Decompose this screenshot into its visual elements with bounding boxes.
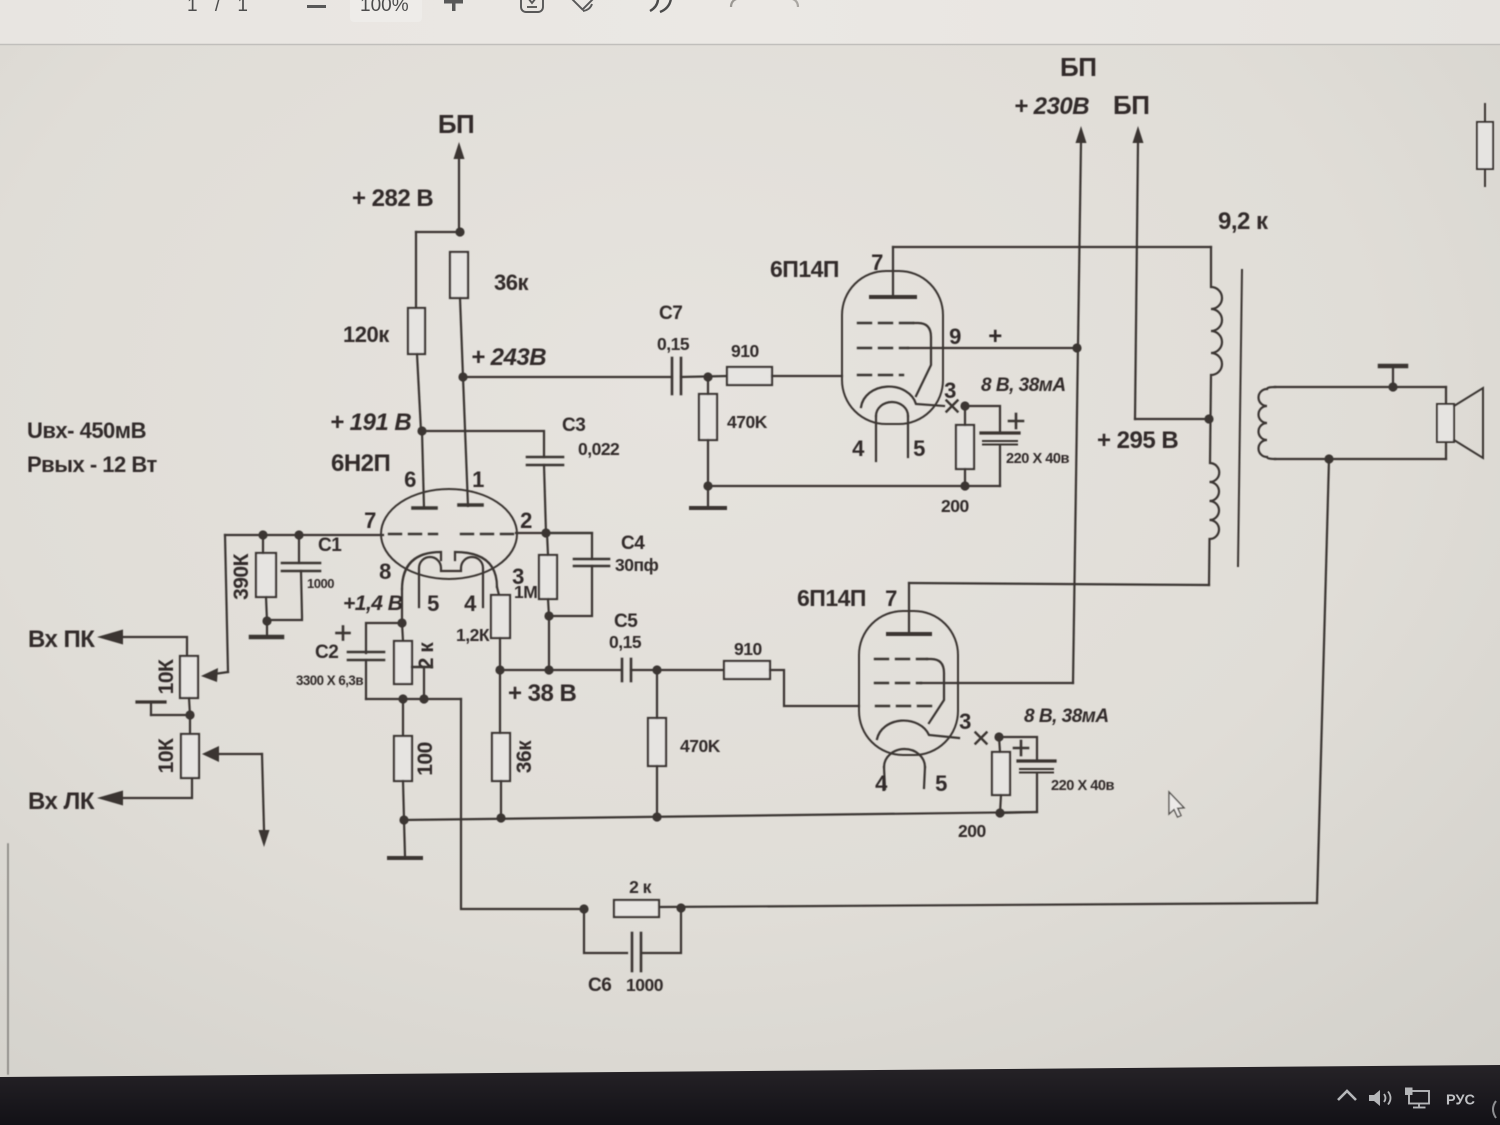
resistor 36к (triode2) <box>492 733 510 781</box>
pin 3 lead V1 <box>497 587 499 595</box>
feedback wire bottom <box>659 903 1317 907</box>
svg-text:C3: C3 <box>562 415 585 436</box>
svg-text:220 Х 40в: 220 Х 40в <box>1051 777 1114 794</box>
capacitor 220х40 (V3) plus <box>1014 747 1028 750</box>
toolbar rotate icon <box>570 0 594 11</box>
wire 36к to bus <box>500 781 502 818</box>
transformer secondary winding <box>1259 387 1276 459</box>
wire C5 node to 910 <box>657 669 724 671</box>
wire 100 to bus <box>403 781 404 819</box>
wire cathode to 2к <box>402 623 403 641</box>
svg-text:БП: БП <box>438 109 474 139</box>
power arrow БП stage1 <box>458 158 460 232</box>
ground T on secondary <box>1388 382 1397 391</box>
wire 2к to 100 <box>402 699 404 736</box>
toolbar redo icon <box>780 0 798 7</box>
wire БП to transformer tap <box>1135 418 1209 420</box>
cathode triode1 V1 <box>402 552 441 589</box>
input Вх ЛК arrow <box>97 791 123 806</box>
capacitor C3 <box>527 456 563 459</box>
svg-text:200: 200 <box>941 496 969 516</box>
resistor 2 к cathode <box>394 641 412 684</box>
svg-text:390К: 390К <box>230 553 253 600</box>
wire C2 to cathode node <box>366 623 402 653</box>
tube V3 envelope <box>859 611 958 755</box>
svg-text:0,022: 0,022 <box>578 439 620 459</box>
wire C5 to 470K node <box>631 669 657 671</box>
resistor 470K (upper) <box>699 394 717 440</box>
wire C2 bottom <box>365 660 367 699</box>
svg-text:4: 4 <box>852 436 865 461</box>
svg-text:+ 295 В: + 295 В <box>1097 427 1178 454</box>
resistor 36к <box>450 252 468 298</box>
svg-text:36к: 36к <box>513 740 536 773</box>
speaker horn <box>1454 388 1483 458</box>
node cathode V3 <box>994 732 1003 741</box>
heater arc V2 <box>876 402 908 416</box>
toolbar zoom level 100% <box>350 0 422 22</box>
node 1M bottom <box>544 611 553 620</box>
ground symbol 390K <box>266 621 268 634</box>
wire anode pin1 V1 <box>463 377 468 506</box>
wire Вх ЛК to pot R2 <box>122 779 192 798</box>
svg-text:+ 191 В: + 191 В <box>330 409 411 436</box>
svg-text:Рвых - 12 Вт: Рвых - 12 Вт <box>27 452 157 477</box>
secondary top wire <box>1275 386 1446 388</box>
capacitor C5 <box>621 659 624 681</box>
wire cap to bottom (V2) <box>999 445 1001 486</box>
taskbar network icon <box>1405 1088 1413 1096</box>
anode plate V2 <box>871 295 915 299</box>
svg-text:3: 3 <box>944 378 956 403</box>
node C1 top <box>294 530 303 539</box>
svg-text:C7: C7 <box>659 303 682 324</box>
grid3 row V3 <box>876 705 938 707</box>
svg-text:120к: 120к <box>343 322 390 347</box>
svg-text:1 / 1: 1 / 1 <box>187 0 254 16</box>
svg-text:БП: БП <box>1060 52 1096 82</box>
speaker coil box <box>1437 404 1454 442</box>
grid1 row V2 <box>858 322 914 324</box>
svg-text:5: 5 <box>935 771 947 796</box>
svg-text:РУС: РУС <box>1446 1093 1476 1109</box>
wire anode V2 to primary <box>893 246 1211 248</box>
node 470K top (upper) <box>703 372 712 381</box>
node 470K bottom (upper) <box>703 481 712 490</box>
svg-text:1000: 1000 <box>307 576 334 591</box>
input Вх ПК arrow <box>97 630 123 645</box>
ground stub at pots junction <box>151 714 190 716</box>
anode plate triode2 <box>459 503 482 507</box>
ground symbol 470K <box>707 486 709 506</box>
svg-text:8 В, 38мА: 8 В, 38мА <box>981 375 1066 396</box>
wire +191В to C3 <box>422 431 544 457</box>
wire 910 to V3 grid <box>770 670 859 706</box>
wire screens V3 <box>958 682 1073 684</box>
speaker wire right <box>1445 387 1447 404</box>
grid wire V1 left <box>225 534 383 536</box>
svg-text:2: 2 <box>520 508 532 533</box>
wire C7 to 910 <box>681 376 727 377</box>
resistor 100 <box>394 736 412 781</box>
svg-text:+ 243В: + 243В <box>471 344 546 371</box>
cathode triode2 V1 <box>455 552 497 587</box>
svg-text:Вх ЛК: Вх ЛК <box>28 788 95 815</box>
svg-text:4: 4 <box>464 591 477 616</box>
feedback wire to cathode <box>461 699 584 909</box>
svg-text:36к: 36к <box>494 270 529 295</box>
node C5/470K <box>652 665 661 674</box>
transformer core <box>1238 270 1242 566</box>
svg-text:8 В, 38мА: 8 В, 38мА <box>1024 706 1109 727</box>
svg-text:200: 200 <box>958 821 986 841</box>
svg-text:3: 3 <box>959 709 971 734</box>
svg-text:2 к: 2 к <box>629 877 652 897</box>
wire pot R2 wiper down arrow <box>262 754 264 829</box>
svg-text:0,15: 0,15 <box>657 334 690 354</box>
svg-text:8: 8 <box>379 559 391 584</box>
grid3 row V2 <box>858 374 903 376</box>
feedback wire right <box>1317 459 1329 903</box>
wire 120к to +191В node <box>417 354 421 431</box>
page left edge line <box>7 844 9 1074</box>
svg-text:30пф: 30пф <box>615 555 659 575</box>
pin 7 lead V2 <box>892 247 894 297</box>
node 1M bottom tap <box>544 665 553 674</box>
secondary bottom wire <box>1275 458 1446 460</box>
resistor 910 (lower) <box>724 661 770 679</box>
wire cathode V2 to cap <box>965 406 1000 433</box>
svg-text:БП: БП <box>1113 90 1149 120</box>
potentiometer R1 10К <box>180 656 198 698</box>
capacitor 220х40 (V2) plus <box>1009 420 1023 423</box>
resistor right edge <box>1477 122 1493 169</box>
capacitor C6 loop <box>584 909 681 953</box>
svg-text:10К: 10К <box>155 659 178 694</box>
svg-text:6: 6 <box>404 467 416 492</box>
x mark cathode V3 <box>976 733 987 744</box>
wire cathode bottom rail <box>366 698 461 700</box>
svg-text:9,2 к: 9,2 к <box>1218 208 1269 235</box>
wire cathode bottom rail V2 <box>708 485 1000 487</box>
wire C4 to 1M bottom <box>549 566 592 670</box>
node feedback right <box>676 903 685 912</box>
svg-text:+: + <box>988 323 1002 350</box>
svg-text:5: 5 <box>913 436 925 461</box>
node +191В <box>417 426 426 435</box>
resistor 120к <box>408 308 425 354</box>
pin 6 lead V1 <box>422 431 424 508</box>
grid2 row V3 <box>875 682 921 684</box>
svg-text:6П14П: 6П14П <box>797 585 866 611</box>
node transformer tap <box>1204 414 1213 423</box>
wire +38 to C5 <box>500 669 621 671</box>
svg-text:+ 38 В: + 38 В <box>508 680 577 707</box>
cathode arc V2 <box>861 387 944 407</box>
svg-text:10К: 10К <box>155 738 178 773</box>
ground bus wire <box>404 812 1036 820</box>
wire C1 bottom <box>267 571 302 620</box>
svg-text:+ 282 В: + 282 В <box>352 185 433 212</box>
svg-text:C1: C1 <box>318 535 342 556</box>
power arrow +230В <box>1076 126 1087 143</box>
svg-text:7: 7 <box>364 508 376 533</box>
svg-text:C2: C2 <box>315 642 338 663</box>
wire 36к to +243В node <box>460 298 463 377</box>
node cathode V1a <box>397 618 406 627</box>
node 390K top <box>258 530 267 539</box>
transformer primary winding <box>1209 247 1222 585</box>
svg-text:100: 100 <box>414 742 437 776</box>
svg-text:Вх ПК: Вх ПК <box>28 626 95 653</box>
svg-text:C6: C6 <box>588 975 611 996</box>
wire cap to bus (V3) <box>1036 773 1038 812</box>
svg-text:4: 4 <box>875 771 888 796</box>
resistor 200 (V2) <box>956 425 974 469</box>
taskbar speaker icon <box>1369 1090 1380 1106</box>
grid2 row V2 <box>858 347 908 349</box>
svg-text:910: 910 <box>734 639 762 659</box>
taskbar chevron up <box>1338 1091 1356 1100</box>
tube V2 envelope <box>842 271 943 424</box>
anode plate triode1 <box>413 506 436 510</box>
node +243В <box>458 372 467 381</box>
svg-text:1М: 1М <box>514 582 537 602</box>
svg-text:470K: 470K <box>680 736 721 756</box>
grid dashes V1 <box>389 533 437 535</box>
svg-text:6П14П: 6П14П <box>770 256 839 282</box>
node feedback left <box>579 904 588 913</box>
mouse cursor <box>1169 792 1184 817</box>
toolbar zoom minus <box>307 5 326 8</box>
taskbar partial icon corner <box>1493 1101 1496 1118</box>
node +282В junction <box>455 227 464 236</box>
svg-text:9: 9 <box>949 324 961 349</box>
svg-text:2 к: 2 к <box>415 642 438 670</box>
wire +38 to 36к <box>499 670 501 733</box>
ground symbol bus <box>404 820 405 856</box>
wire 1,2К to +38 node <box>499 638 501 670</box>
wire grid2 to C4 <box>546 533 592 559</box>
svg-text:7: 7 <box>885 586 897 611</box>
resistor 1М <box>539 555 557 599</box>
svg-text:+1,4 В: +1,4 В <box>343 592 403 615</box>
node +38В <box>495 665 504 674</box>
wire Вх ПК to pot R1 <box>122 637 187 656</box>
node secondary feedback tap <box>1324 454 1333 463</box>
resistor 390К <box>256 553 276 597</box>
node pots junction <box>185 710 194 719</box>
svg-text:0,15: 0,15 <box>609 632 642 652</box>
wire 910 to V2 grid <box>772 375 842 377</box>
capacitor C1 <box>282 562 320 565</box>
capacitor C2 <box>348 651 384 654</box>
svg-text:470K: 470K <box>727 412 768 432</box>
wire primary to anode V3 <box>909 583 1209 585</box>
node cathode V2 <box>960 401 969 410</box>
cathode arc V3 <box>877 721 959 739</box>
x mark cathode V2 <box>947 401 958 412</box>
svg-text:1000: 1000 <box>626 975 664 995</box>
tube V1 6Н2П envelope <box>381 489 517 579</box>
wire screen V2 to +230 <box>943 347 1077 349</box>
pdf viewer toolbar <box>0 0 1500 44</box>
grid1 row V3 <box>875 658 927 660</box>
capacitor 220х40 (V2) <box>981 431 1019 434</box>
resistor 200 (V3) <box>992 752 1010 795</box>
heater structure V1 <box>419 557 483 607</box>
svg-text:100%: 100% <box>360 0 409 16</box>
svg-text:C4: C4 <box>621 533 645 554</box>
windows taskbar <box>0 1065 1500 1125</box>
svg-text:C5: C5 <box>614 611 638 632</box>
wire +243В to C7 <box>463 376 672 378</box>
svg-text:6Н2П: 6Н2П <box>331 450 390 477</box>
resistor 1,2К <box>491 595 510 638</box>
toolbar undo icon <box>731 0 749 7</box>
power arrow БП right <box>1133 126 1144 143</box>
svg-text:+ 230В: + 230В <box>1014 93 1089 120</box>
feedback tap bar <box>412 666 432 668</box>
svg-text:5: 5 <box>427 591 439 616</box>
pin 8 lead V1 <box>401 589 403 623</box>
node 390K bottom <box>262 616 271 625</box>
svg-text:Uвх- 450мВ: Uвх- 450мВ <box>27 418 146 443</box>
capacitor C2 plus <box>337 632 350 635</box>
pin 7 lead V3 <box>908 583 910 634</box>
potentiometer R2 10К <box>181 734 199 778</box>
capacitor C4 <box>574 558 609 561</box>
resistor 2 к feedback <box>614 900 659 917</box>
svg-text:3300 Х 6,3в: 3300 Х 6,3в <box>296 673 363 688</box>
resistor 910 (upper) <box>727 367 772 385</box>
wire C3 to grid2 <box>544 465 546 533</box>
grid wire V1 right <box>516 532 592 534</box>
toolbar pen icon <box>650 0 671 12</box>
toolbar save icon <box>521 0 543 12</box>
svg-text:910: 910 <box>731 341 759 361</box>
toolbar zoom plus <box>444 0 463 4</box>
heater arc V3 <box>884 749 925 767</box>
anode plate V3 <box>888 632 930 636</box>
svg-text:220 Х 40в: 220 Х 40в <box>1006 450 1069 467</box>
node grid2 C3 <box>541 528 550 537</box>
capacitor C7 <box>671 358 674 394</box>
svg-text:1: 1 <box>472 467 484 492</box>
wire cathode V3 to cap <box>999 737 1037 761</box>
capacitor C6 <box>631 933 634 971</box>
wire pot R1 wiper to grid node <box>225 535 228 672</box>
capacitor 220х40 (V3) <box>1018 759 1055 762</box>
svg-text:1,2К: 1,2К <box>456 625 490 645</box>
resistor 470K (lower) <box>648 718 666 766</box>
